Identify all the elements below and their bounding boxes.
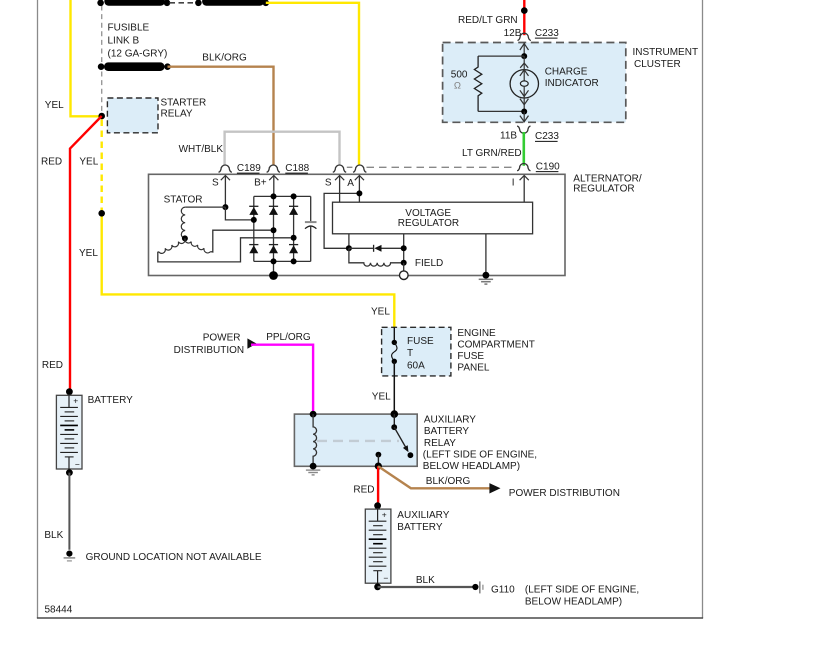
rectifier right column (293, 196, 295, 261)
node dot top bar2 left (195, 0, 202, 6)
node dot aux battery bottom (374, 583, 381, 590)
svg-text:500: 500 (451, 70, 468, 81)
wire BLK/ORG from link B to C188 (168, 67, 274, 166)
svg-text:AUXILIARY: AUXILIARY (397, 510, 449, 521)
wire lamp out with down arrowhead (523, 112, 525, 123)
svg-text:A: A (347, 178, 354, 189)
wire resistor top link (478, 55, 524, 57)
wire LT GRN/RED (522, 132, 525, 166)
svg-text:Ω: Ω (454, 80, 461, 91)
fusible link bar top-right (202, 0, 264, 6)
connector C190 arc (517, 163, 530, 170)
svg-text:REGULATOR: REGULATOR (398, 218, 459, 229)
wire YEL solid down and across to fuse (102, 213, 395, 327)
svg-text:BLK: BLK (44, 530, 63, 541)
wire A branch to field dot (324, 193, 359, 248)
wire stator phase3 to middle diode column (211, 230, 271, 252)
svg-text:CHARGE: CHARGE (545, 67, 588, 78)
svg-text:YEL: YEL (372, 392, 391, 403)
node dot aux battery top (374, 502, 381, 509)
svg-text:G110: G110 (491, 584, 515, 595)
terminal B+ arrow (273, 176, 275, 197)
terminal S1 arrow (224, 176, 226, 208)
svg-text:ENGINE: ENGINE (457, 328, 496, 339)
node dot field left (346, 245, 352, 251)
svg-text:−: − (383, 573, 388, 583)
stator coil 2 (158, 238, 185, 253)
wire PPL/ORG to relay (251, 345, 313, 412)
engine compartment fuse panel box (382, 327, 451, 376)
node dot on RED/LT GRN (521, 7, 528, 14)
diode upper left (249, 206, 258, 215)
wire YEL top-left vertical (71, 0, 101, 116)
wire BLK to G110 (378, 586, 476, 588)
svg-text:POWER DISTRIBUTION: POWER DISTRIBUTION (509, 488, 620, 499)
relay coil (313, 414, 316, 466)
diode upper middle (269, 206, 278, 215)
node big ground dot on case (269, 271, 278, 280)
node dot top bar2 right (263, 0, 270, 6)
svg-text:B+: B+ (254, 178, 267, 189)
fuse T 60A (392, 327, 397, 364)
node dot top bar1 right (164, 0, 171, 6)
field terminal open circle (403, 263, 405, 271)
node dot lamp bottom (521, 109, 527, 115)
svg-text:C190: C190 (536, 161, 560, 172)
wire YEL dashed below starter relay (100, 120, 102, 211)
node dot relay coil top (310, 411, 317, 418)
node dot stator center (182, 235, 188, 241)
stator coil 3 (185, 238, 211, 252)
svg-text:FUSE: FUSE (407, 336, 434, 347)
fusible link B bar (104, 62, 165, 71)
wire BLK battery to ground (68, 473, 70, 550)
svg-text:DISTRIBUTION: DISTRIBUTION (174, 345, 245, 356)
svg-text:C189: C189 (237, 163, 261, 174)
rectifier middle column (273, 196, 275, 275)
svg-text:S: S (212, 178, 219, 189)
svg-text:YEL: YEL (79, 156, 98, 167)
svg-text:RED/LT GRN: RED/LT GRN (458, 15, 518, 26)
svg-text:BATTERY: BATTERY (88, 395, 134, 406)
svg-text:C233: C233 (535, 28, 559, 39)
instrument cluster box (443, 43, 626, 123)
svg-text:WHT/BLK: WHT/BLK (179, 144, 224, 155)
svg-text:BATTERY: BATTERY (397, 522, 443, 533)
main battery (56, 395, 82, 469)
terminal A arrow (358, 176, 360, 203)
wire dashed connector line short (347, 166, 353, 168)
svg-text:C233: C233 (535, 131, 559, 142)
svg-text:YEL: YEL (371, 306, 390, 317)
svg-text:AUXILIARY: AUXILIARY (424, 414, 476, 425)
svg-text:60A: 60A (407, 361, 425, 372)
node dot on A line (356, 190, 362, 196)
frame right border (702, 0, 704, 618)
terminal S2 arrow (339, 176, 341, 203)
svg-text:LINK B: LINK B (108, 35, 140, 46)
svg-text:RELAY: RELAY (424, 438, 456, 449)
svg-text:S: S (325, 178, 332, 189)
starter relay box (107, 98, 158, 133)
node dot lamp top (521, 53, 527, 59)
main battery top dot (66, 388, 73, 395)
ground symbol VR (479, 279, 493, 284)
connector S arc (333, 165, 346, 172)
connector A arc (353, 165, 366, 172)
wire BLK/ORG to power distribution (378, 466, 490, 488)
connector C233 arc top (518, 33, 531, 40)
svg-text:COMPARTMENT: COMPARTMENT (457, 340, 534, 351)
wire gray dashed feed upper (101, 6, 103, 63)
arrow to power distribution left (247, 338, 256, 348)
diode upper right (289, 206, 298, 215)
svg-text:FUSE: FUSE (457, 351, 484, 362)
svg-text:FUSIBLE: FUSIBLE (108, 22, 150, 33)
connector C189 arc (219, 165, 232, 172)
ground G110 symbol (472, 581, 483, 593)
wire VR left pin down (348, 234, 350, 249)
frame left border (37, 0, 39, 618)
node dot field coil right (401, 260, 407, 266)
wire fuse to relay (YEL) (393, 361, 395, 414)
node dot relay switch top (391, 410, 399, 418)
wire S branch to left diode column (225, 207, 253, 220)
fusible link bar top-left (104, 0, 165, 6)
rectifier bottom rail (254, 260, 311, 262)
node dot relay output (375, 463, 382, 470)
svg-text:REGULATOR: REGULATOR (573, 184, 634, 195)
resistor 500 ohm (474, 56, 481, 111)
arrow to power distribution right (489, 483, 500, 493)
auxiliary battery relay box (294, 414, 417, 466)
svg-text:(12 GA-GRY): (12 GA-GRY) (108, 48, 168, 59)
wire lamp feed with up arrowhead (523, 43, 525, 57)
svg-text:RED: RED (42, 360, 63, 371)
node dot S stator (222, 204, 228, 210)
svg-text:BLK/ORG: BLK/ORG (202, 53, 247, 64)
svg-text:C188: C188 (285, 163, 309, 174)
svg-text:BLK: BLK (416, 575, 435, 586)
node dot VR ground (483, 272, 490, 279)
connector C233 arc bottom (517, 126, 530, 133)
svg-text:(LEFT SIDE OF ENGINE,: (LEFT SIDE OF ENGINE, (525, 584, 639, 595)
svg-text:RELAY: RELAY (161, 108, 193, 119)
frame bottom border (37, 617, 703, 619)
wire RED/LT GRN from top to C233 (523, 0, 525, 35)
wire stator phase2 to lower-right diode column (158, 238, 291, 262)
svg-text:POWER: POWER (203, 332, 241, 343)
svg-text:YEL: YEL (79, 248, 98, 259)
voltage regulator box (333, 202, 533, 234)
wire RED diagonal then down to battery (70, 116, 102, 392)
auxiliary battery (365, 509, 391, 583)
node dot link B left (98, 63, 105, 70)
ground symbol relay coil (306, 470, 320, 475)
node dot top bar1 left (97, 0, 104, 6)
diode lower right (289, 245, 298, 254)
connector C188 arc (267, 165, 280, 172)
terminal I arrow (523, 176, 525, 203)
node dot field right (401, 245, 407, 251)
wire gray dashed feed lower (101, 72, 103, 113)
svg-text:LT GRN/RED: LT GRN/RED (462, 148, 522, 159)
main battery bottom dot (66, 469, 73, 476)
node junction dot at starter relay (98, 113, 105, 120)
svg-text:−: − (75, 459, 80, 469)
svg-text:T: T (407, 348, 413, 359)
svg-text:YEL: YEL (45, 100, 64, 111)
rectifier top rail (254, 195, 311, 197)
svg-text:FIELD: FIELD (415, 258, 443, 269)
svg-text:58444: 58444 (45, 604, 73, 615)
svg-text:RED: RED (353, 484, 374, 495)
relay switch (376, 414, 414, 466)
svg-text:GROUND LOCATION NOT AVAILABLE: GROUND LOCATION NOT AVAILABLE (86, 552, 262, 563)
wire WHT/BLK bridge C189 to S (225, 132, 340, 166)
node junction dot yellow mid (98, 210, 105, 217)
wire dashed connector line to C190 (367, 166, 517, 168)
svg-text:STARTER: STARTER (161, 98, 207, 109)
wire RED relay to aux battery (377, 466, 379, 506)
wire S to stator coil1 (185, 206, 225, 208)
field coil (349, 248, 404, 266)
svg-text:PANEL: PANEL (457, 363, 489, 374)
stator coil 1 (181, 207, 185, 238)
svg-text:PPL/ORG: PPL/ORG (266, 332, 311, 343)
svg-text:INSTRUMENT: INSTRUMENT (633, 47, 699, 58)
wire VR ground pin (485, 234, 487, 276)
svg-text:12B: 12B (504, 28, 522, 39)
svg-text:I: I (512, 178, 515, 189)
svg-text:11B: 11B (500, 131, 517, 142)
relay actuation dashed link (317, 440, 399, 442)
node dots rectifier rails (271, 193, 277, 199)
alternator/regulator outer box (149, 174, 566, 275)
node dot relay coil bottom (310, 463, 317, 470)
svg-text:CLUSTER: CLUSTER (634, 59, 681, 70)
svg-text:(LEFT SIDE OF ENGINE,: (LEFT SIDE OF ENGINE, (423, 450, 537, 461)
svg-text:INDICATOR: INDICATOR (545, 78, 599, 89)
diode lower middle (269, 245, 278, 254)
charge indicator lamp (523, 56, 525, 70)
svg-text:STATOR: STATOR (164, 194, 203, 205)
diode lower left (249, 245, 258, 254)
field diode (349, 245, 404, 252)
node dot link B right (164, 63, 171, 70)
svg-text:BLK/ORG: BLK/ORG (426, 476, 471, 487)
svg-text:BATTERY: BATTERY (424, 426, 470, 437)
wire VR right pin down (403, 234, 405, 263)
rectifier left column (253, 196, 255, 261)
svg-text:BELOW HEADLAMP): BELOW HEADLAMP) (525, 596, 622, 607)
svg-text:+: + (73, 396, 78, 406)
wire YEL top horizontal to A terminal (266, 3, 359, 166)
ground symbol floating (64, 551, 76, 561)
wire dashed link between top bars (170, 2, 198, 4)
svg-text:+: + (382, 509, 387, 519)
svg-text:RED: RED (41, 156, 62, 167)
wire resistor bottom link (478, 110, 524, 112)
capacitor (305, 196, 317, 261)
svg-text:BELOW HEADLAMP): BELOW HEADLAMP) (423, 461, 520, 472)
